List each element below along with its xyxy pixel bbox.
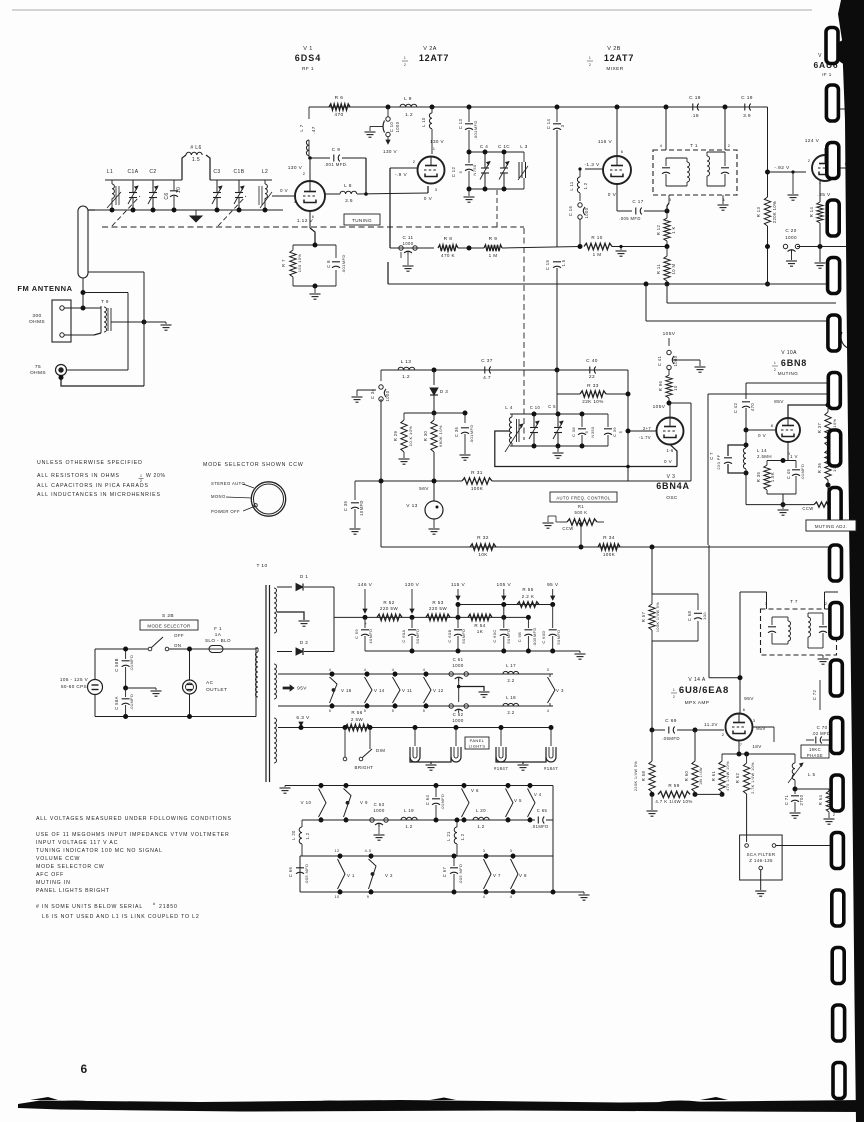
svg-text:.35 V: .35 V (817, 192, 831, 198)
svg-text:4: 4 (660, 143, 663, 148)
svg-text:.05MFD: .05MFD (662, 736, 680, 741)
svg-text:L 3: L 3 (520, 144, 527, 149)
ground between lamps 3-4 (496, 757, 523, 764)
svg-text:124 V: 124 V (805, 138, 820, 144)
oscillator tank bottom rail (510, 445, 608, 447)
svg-text:4: 4 (510, 895, 513, 899)
dashed gang vertical to osc section (523, 228, 525, 440)
resistor R34 (598, 544, 620, 550)
svg-text:50MFD: 50MFD (415, 628, 420, 643)
heater V5 (507, 786, 509, 789)
wire top link to 75ohm column (83, 292, 128, 294)
wire R9 to mixer grid column (502, 247, 580, 249)
svg-text:5: 5 (458, 170, 463, 173)
T7 pin3 riser (766, 592, 768, 609)
svg-text:C 16: C 16 (568, 206, 573, 217)
svg-text:1.12 V: 1.12 V (297, 218, 314, 224)
R35 C45 cathode network (767, 460, 796, 462)
svg-text:1: 1 (774, 361, 776, 365)
svg-text:C6: C6 (164, 192, 170, 199)
T10 HV secondary winding (274, 588, 277, 633)
svg-text:RF 1: RF 1 (302, 66, 314, 72)
heater V11 (394, 674, 396, 677)
svg-text:-1.7V: -1.7V (639, 435, 651, 440)
resistor R64 (795, 788, 829, 790)
svg-text:.02 MFD: .02 MFD (812, 731, 831, 736)
svg-text:4: 4 (294, 199, 297, 204)
svg-text:1.5K: 1.5K (770, 472, 775, 482)
svg-text:V 1: V 1 (347, 873, 355, 878)
svg-text:-.9 V: -.9 V (395, 172, 408, 178)
R57 C68 parallel box (652, 593, 698, 595)
svg-text:6BN8: 6BN8 (781, 358, 807, 368)
svg-text:1 V: 1 V (790, 454, 798, 459)
wire V1 plate to L7 (309, 160, 311, 181)
wire tank top to osc line (556, 394, 558, 414)
svg-text:10: 10 (334, 895, 339, 899)
svg-text:.001MFD: .001MFD (469, 424, 474, 443)
antenna balun coil (78, 206, 88, 278)
T7 internal primary coil (787, 617, 789, 621)
capacitor C5 (variable) (557, 414, 559, 428)
svg-text:1M 1/4W: 1M 1/4W (699, 767, 703, 785)
svg-text:C 19: C 19 (741, 95, 753, 101)
svg-text:R 32: R 32 (477, 535, 489, 541)
svg-text:.001MFD: .001MFD (473, 120, 478, 139)
filter ground rail (365, 650, 580, 652)
svg-text:T 10: T 10 (256, 563, 267, 569)
tube V14A (726, 714, 753, 741)
svg-text:1000: 1000 (785, 235, 797, 240)
svg-text:C 17: C 17 (632, 199, 643, 204)
svg-text:ALL INDUCTANCES IN MICROHEN: ALL INDUCTANCES IN MICROHENRIES (37, 492, 161, 498)
feedthrough capacitor C10 (387, 107, 389, 117)
svg-text:9: 9 (367, 895, 370, 899)
svg-text:95V: 95V (744, 696, 754, 702)
svg-text:2+7: 2+7 (643, 426, 652, 431)
ground left of C10 (370, 126, 383, 128)
inductor L18 (503, 703, 519, 706)
svg-text:10: 10 (176, 187, 182, 193)
variable inductor L5 (794, 754, 796, 763)
svg-text:R 10: R 10 (591, 235, 602, 240)
svg-text:4: 4 (547, 709, 550, 713)
svg-text:2 5W: 2 5W (351, 717, 364, 722)
svg-text:C 60A: C 60A (401, 629, 406, 642)
svg-text:R 9: R 9 (489, 236, 498, 242)
capacitor C37 (484, 367, 486, 374)
T10 95V winding (274, 664, 277, 699)
svg-text:#: # (153, 902, 156, 906)
svg-text:R 37: R 37 (817, 423, 822, 434)
svg-text:N750: N750 (472, 164, 477, 176)
svg-text:105V: 105V (653, 404, 666, 410)
svg-text:R 57: R 57 (641, 612, 646, 623)
svg-text:OHMS: OHMS (30, 370, 46, 376)
T7 internal secondary cap (822, 613, 824, 625)
svg-text:0 V: 0 V (424, 196, 433, 202)
black blob top right corner (839, 39, 859, 66)
IF bus wires to right edge (388, 283, 830, 285)
svg-text:18V: 18V (752, 744, 762, 749)
svg-text:C 1C: C 1C (498, 144, 510, 149)
ground below tank (468, 189, 470, 196)
svg-text:1 K: 1 K (671, 226, 676, 234)
svg-text:19KC: 19KC (809, 747, 821, 752)
wire V10A plate to 85V (788, 405, 828, 418)
svg-text:5: 5 (329, 709, 332, 713)
bottom black bar (18, 1100, 864, 1112)
svg-text:MONO: MONO (211, 494, 226, 499)
heater V14 (366, 674, 368, 677)
svg-text:R 56: R 56 (351, 710, 362, 715)
filter capacitor C60A (411, 617, 413, 628)
svg-text:AC: AC (206, 680, 214, 686)
arc of hidden tube at right edge (841, 332, 852, 349)
6.3V heater bus (301, 727, 553, 729)
wire V14A pin3 right (753, 726, 775, 728)
svg-text:V 2A: V 2A (423, 46, 437, 52)
svg-text:220 PF: 220 PF (716, 454, 721, 469)
svg-text:C 60B: C 60B (447, 629, 452, 642)
C62 centre stem (458, 687, 460, 703)
svg-text:L 20: L 20 (476, 808, 486, 813)
T10 centre tap ground (277, 612, 304, 620)
mode selector dial (251, 482, 285, 516)
muting bottom wire to pot (745, 473, 747, 505)
capacitor C2 (variable) (152, 180, 154, 193)
svg-text:# L6: # L6 (190, 145, 201, 151)
ground below tank (557, 446, 559, 452)
svg-text:6: 6 (621, 149, 624, 154)
svg-text:R 7: R 7 (281, 259, 286, 267)
svg-text:MODE SELECTOR: MODE SELECTOR (147, 624, 190, 629)
svg-text:1: 1 (673, 688, 675, 692)
svg-text:CCW: CCW (802, 506, 813, 511)
svg-text:85V: 85V (774, 399, 784, 405)
svg-text:1: 1 (404, 56, 406, 60)
diode D3 (433, 370, 435, 385)
95V heater rail bottom (278, 705, 553, 707)
svg-text:R 96: R 96 (658, 381, 663, 392)
rectifier D1 (277, 586, 292, 588)
MUTING ADJ box (806, 520, 856, 531)
PANEL LIGHTS box (465, 737, 489, 749)
svg-text:L 20: L 20 (291, 830, 296, 840)
wire V10A grid (746, 429, 776, 431)
svg-text:C 14: C 14 (546, 119, 551, 130)
svg-text:R 36: R 36 (817, 463, 822, 474)
svg-text:C 38: C 38 (571, 427, 576, 437)
resistor R37 (827, 394, 829, 405)
ground below R14 (815, 262, 826, 264)
capacitor C3 (variable) (216, 180, 218, 193)
svg-text:100: 100 (702, 612, 707, 620)
svg-text:150 10%: 150 10% (297, 254, 302, 273)
svg-text:C 67: C 67 (442, 867, 447, 878)
svg-text:V 10: V 10 (301, 800, 312, 805)
wire R57 down to C69 line (651, 641, 653, 730)
svg-text:500 K: 500 K (575, 510, 588, 515)
capacitor C64 (435, 786, 437, 798)
svg-text:4.7: 4.7 (483, 375, 491, 381)
svg-text:Z 146-135: Z 146-135 (749, 858, 773, 863)
svg-text:R 61: R 61 (711, 771, 716, 782)
svg-text:-.92 V: -.92 V (774, 165, 790, 171)
feedthrough C61 (449, 672, 453, 676)
feedthrough capacitor C41 (667, 350, 671, 354)
wire V10A cathode (787, 442, 789, 461)
heater V15 (331, 674, 333, 677)
svg-text:L 21: L 21 (446, 831, 451, 841)
ground stub on -.92V line (791, 170, 794, 173)
svg-text:.005 MFD: .005 MFD (458, 864, 463, 885)
svg-text:C 11: C 11 (403, 235, 414, 240)
svg-text:D 1: D 1 (300, 574, 308, 579)
wire IF bus left riser (387, 262, 389, 284)
feedthrough C63 (370, 818, 374, 822)
svg-text:1.2: 1.2 (305, 832, 310, 839)
svg-text:6DS4: 6DS4 (295, 53, 322, 63)
T1 secondary coil (706, 152, 708, 156)
wire V14A cathode 18V (738, 741, 740, 755)
page top edge line (12, 9, 812, 11)
svg-text:L 14: L 14 (757, 448, 767, 453)
svg-text:.001MFD: .001MFD (341, 254, 346, 273)
capacitor C8 (332, 261, 340, 263)
svg-text:V 14: V 14 (374, 688, 385, 693)
svg-text:.01MFD: .01MFD (531, 824, 548, 829)
svg-text:MODE SELECTOR CW: MODE SELECTOR CW (36, 864, 105, 870)
svg-text:105 - 125 V: 105 - 125 V (60, 677, 89, 682)
svg-text:4: 4 (423, 668, 426, 672)
wire C13 down to AGC junction (468, 189, 470, 248)
svg-text:8: 8 (771, 423, 774, 428)
svg-text:T 9: T 9 (101, 299, 109, 304)
right page black edge bar (838, 0, 864, 1122)
wire rectifier output (333, 587, 335, 652)
svg-text:L 5: L 5 (808, 772, 815, 777)
feedthrough capacitor C16 (579, 193, 581, 201)
svg-text:2.5MH: 2.5MH (757, 454, 772, 459)
svg-text:1.5: 1.5 (192, 157, 200, 163)
capacitor C39 (607, 414, 609, 427)
antenna terminal strip (52, 300, 71, 342)
AC top wire (94, 649, 96, 680)
svg-text:#1847: #1847 (494, 766, 508, 771)
wire V2B plate up (616, 107, 618, 156)
capacitor C65 (537, 817, 539, 824)
wire L2 to V1 grid (272, 195, 296, 197)
svg-text:4: 4 (329, 668, 332, 672)
svg-text:C 39: C 39 (612, 427, 617, 437)
svg-text:SLO - BLO: SLO - BLO (205, 638, 231, 643)
svg-text:OUTLET: OUTLET (206, 687, 227, 693)
resistor R12 (664, 218, 670, 241)
svg-text:1.2: 1.2 (460, 833, 465, 840)
wire C34 down to left rail (380, 399, 382, 547)
svg-text:6.3 V: 6.3 V (296, 715, 310, 721)
wire connector to riser (67, 369, 129, 371)
resistor R35 (764, 465, 770, 490)
svg-text:MUTING ADJ.: MUTING ADJ. (815, 524, 847, 529)
wire V2A cathode (427, 186, 429, 193)
svg-text:12: 12 (334, 849, 339, 853)
inductor L10 (431, 107, 433, 113)
heater V7 (485, 856, 487, 859)
resistor R30 (431, 420, 437, 452)
svg-text:C 62: C 62 (453, 712, 464, 717)
wire down from T9 gnd junction (143, 272, 145, 386)
svg-text:115 V: 115 V (451, 582, 466, 588)
T1 primary capacitor (665, 158, 667, 166)
L4 feedback loop wire (495, 431, 677, 467)
svg-text:V 7: V 7 (493, 873, 501, 878)
svg-text:1.2: 1.2 (405, 824, 412, 829)
cathode bus R61 R62 L5 (722, 753, 795, 755)
capacitor C38 (581, 414, 583, 427)
inductor L6 top loop (182, 155, 186, 180)
svg-text:680K 10%: 680K 10% (438, 425, 443, 447)
resistor R32 (470, 544, 496, 550)
capacitor C12 (468, 152, 470, 163)
svg-text:MIXER: MIXER (606, 66, 623, 72)
wire front-end top rail right group (210, 179, 272, 181)
svg-text:V 5: V 5 (514, 798, 522, 803)
svg-text:.005MFD: .005MFD (532, 627, 537, 646)
svg-text:130 V: 130 V (430, 139, 445, 144)
wire V3 grid (628, 430, 656, 432)
svg-text:S 2B: S 2B (162, 613, 174, 619)
wire R29 R30 top rail (404, 412, 465, 414)
svg-text:1: 1 (140, 474, 142, 478)
svg-text:C 72: C 72 (812, 690, 817, 701)
tube V2B 12AT7 mixer (603, 156, 631, 184)
wire C42 top corner (746, 382, 829, 384)
V3 cathode wire (670, 445, 677, 467)
heater row bottom rail (302, 819, 535, 821)
svg-text:L 11: L 11 (569, 181, 574, 191)
svg-text:C 69: C 69 (665, 718, 677, 724)
inductor L2 (264, 180, 266, 184)
capacitor C9B (527, 617, 529, 628)
svg-text:3: 3 (435, 187, 438, 192)
svg-text:11.2V: 11.2V (704, 722, 718, 727)
capacitor C1B (variable) (238, 180, 240, 193)
wire V1 cathode to L8 row (325, 193, 340, 195)
svg-text:R 54: R 54 (474, 623, 485, 628)
svg-text:3: 3 (547, 668, 550, 672)
svg-text:W 20%: W 20% (146, 473, 166, 479)
SCA FILTER box (740, 835, 783, 880)
tube V3 6BN4A (657, 418, 684, 445)
svg-text:L 19: L 19 (404, 808, 414, 813)
svg-text:2.2 K: 2.2 K (522, 594, 535, 599)
svg-text:C 59: C 59 (354, 629, 359, 639)
wire SCA right terminal to edge (776, 845, 838, 847)
AC outlet (183, 680, 197, 694)
inductor L3 (523, 152, 525, 162)
tube V1 6DS4 (295, 181, 325, 211)
wire front-end bottom bus (95, 209, 283, 211)
wire cathode net to bottom (782, 494, 784, 505)
heater V10 (320, 786, 322, 789)
resistor R6 (329, 104, 350, 110)
svg-text:UNLESS OTHERWISE SPECIFIED: UNLESS OTHERWISE SPECIFIED (37, 460, 143, 466)
inductor L9 (400, 104, 417, 107)
95V heater rail top (278, 673, 553, 675)
svg-text:R 33: R 33 (587, 383, 599, 389)
wire R11 node down to IF bus (666, 284, 668, 303)
svg-text:BRIGHT: BRIGHT (355, 765, 374, 770)
inductor L20 horizontal (473, 817, 489, 820)
left rail and R31 line (381, 480, 434, 482)
heater V3 right end (549, 674, 551, 677)
inductor L20 vertical (301, 820, 303, 827)
T7 internal secondary coil (807, 613, 809, 617)
AGC line C11 R8 R9 (390, 247, 434, 249)
svg-text:1 M: 1 M (593, 252, 602, 257)
svg-text:V 15: V 15 (341, 688, 352, 693)
svg-text:105V: 105V (663, 331, 676, 337)
svg-text:L 7: L 7 (299, 124, 304, 131)
feedthrough C62 (449, 704, 453, 708)
IF transformer T1 dashed can (653, 150, 737, 195)
svg-text:C 13: C 13 (458, 119, 463, 130)
resistor R59 (658, 791, 690, 797)
svg-text:PHASE: PHASE (807, 753, 823, 758)
svg-text:C 8: C 8 (326, 260, 331, 268)
ground from C58 junction (126, 687, 156, 689)
svg-text:1000: 1000 (673, 355, 678, 366)
svg-text:R 13: R 13 (756, 207, 761, 218)
svg-text:22K 10%: 22K 10% (582, 399, 603, 404)
svg-text:C 63: C 63 (374, 802, 385, 807)
svg-text:1A: 1A (215, 632, 222, 637)
svg-text:56V: 56V (419, 486, 429, 492)
heater V1 (339, 856, 341, 859)
svg-text:1000: 1000 (584, 207, 589, 218)
svg-text:C 10: C 10 (389, 122, 394, 133)
tube V13 tuning indicator (425, 501, 443, 519)
svg-text:2: 2 (722, 732, 725, 737)
svg-text:R 29: R 29 (393, 431, 398, 442)
resistor R13 (764, 197, 770, 226)
ground below R58 (651, 794, 653, 810)
capacitor C42 (742, 401, 750, 403)
inductor L13 (398, 367, 415, 370)
svg-text:3: 3 (483, 849, 486, 853)
heater V12 (425, 674, 427, 677)
capacitor C58B (125, 649, 127, 659)
svg-text:C 45: C 45 (786, 469, 791, 480)
svg-text:2.2: 2.2 (507, 710, 514, 715)
wire R62 to SCA filter (746, 794, 748, 842)
svg-text:1: 1 (589, 56, 591, 60)
resistor R36 (825, 450, 831, 480)
resistor R54 (468, 614, 492, 620)
svg-text:130 V: 130 V (288, 165, 303, 171)
resistor R60 (694, 730, 696, 761)
resistor R52 (377, 614, 402, 620)
capacitor C14 (556, 107, 558, 122)
wire T1 pin2 to top line (724, 107, 726, 150)
svg-text:C 5: C 5 (548, 404, 556, 409)
svg-text:470 K: 470 K (441, 253, 456, 258)
svg-text:2.7K 1/4W 10%: 2.7K 1/4W 10% (751, 762, 755, 794)
svg-text:C 20: C 20 (785, 228, 796, 233)
wire T1 pin1 to ground (722, 195, 724, 204)
